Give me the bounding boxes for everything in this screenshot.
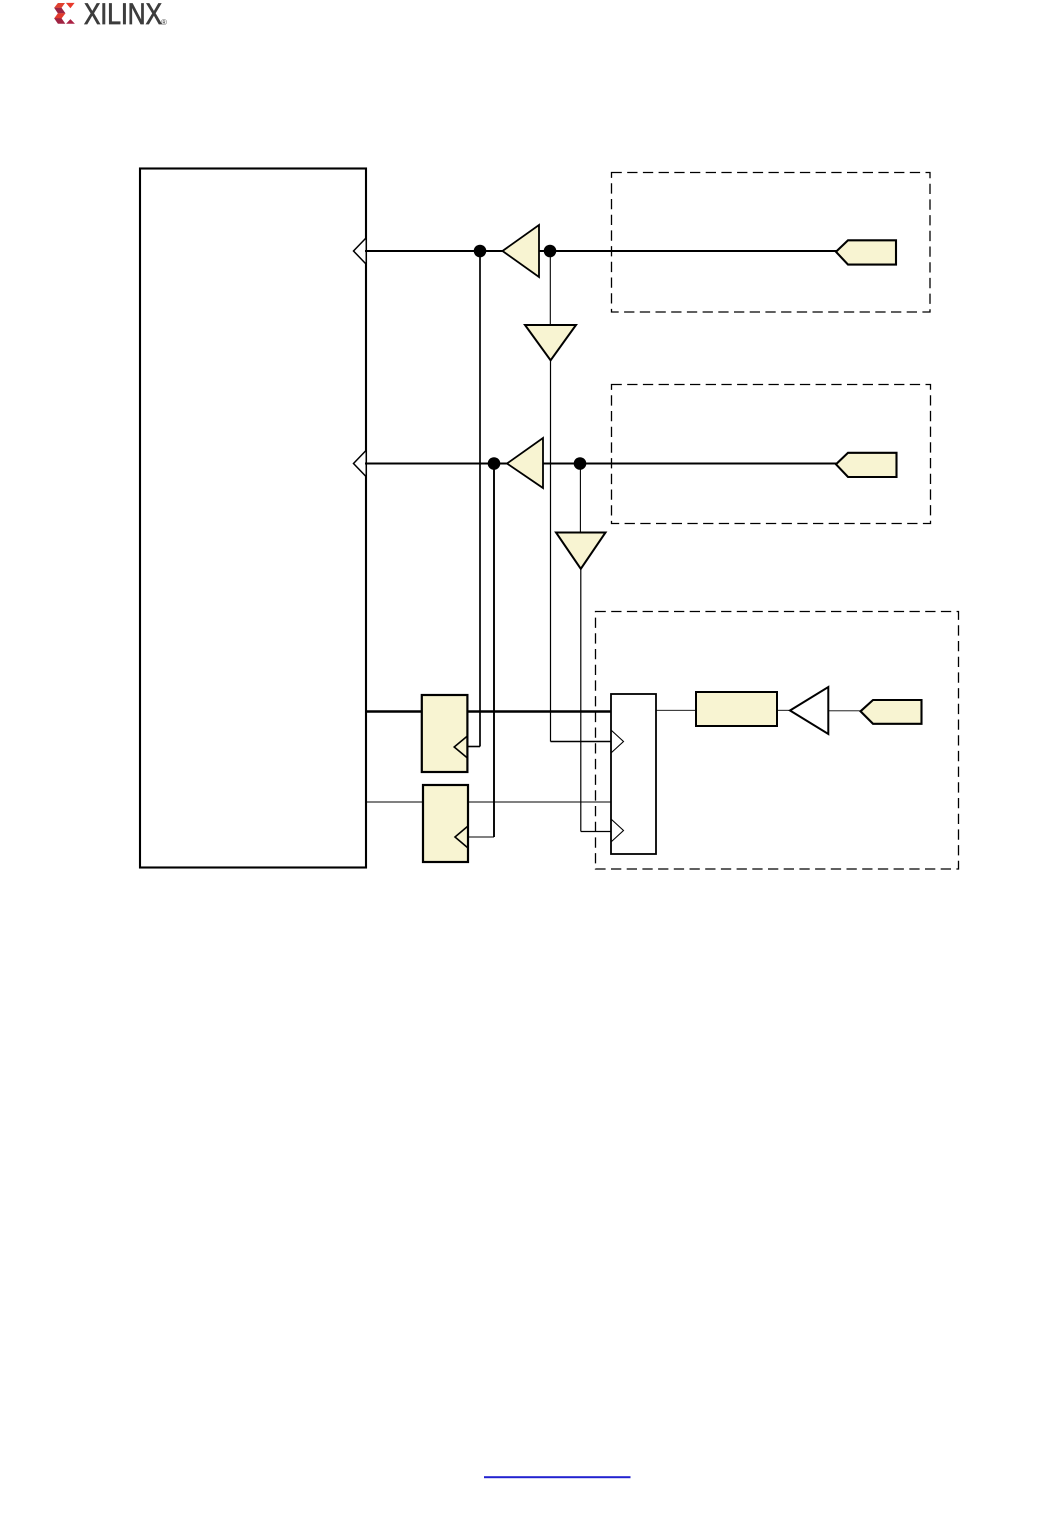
junction dot J4 xyxy=(574,457,587,470)
wire FF2 to DDR D2 xyxy=(468,801,611,803)
wire from BUFG1 down to DDR clock input xyxy=(550,360,552,742)
pad PAD3 xyxy=(861,700,922,724)
dashed IOB box 2 xyxy=(612,385,931,524)
wire net2 right segment xyxy=(543,463,837,465)
input buffer IBUF1 xyxy=(503,225,540,277)
delay element block xyxy=(696,692,777,726)
port arrow P1 on main block edge xyxy=(354,239,366,264)
Xilinx logo emblem xyxy=(54,3,75,24)
svg-text:XILINX: XILINX xyxy=(84,0,162,31)
wire delay to OBUF xyxy=(777,709,791,711)
clock buffer BUFG1 (down triangle) xyxy=(525,325,576,360)
wire from J3 down to FF2 clock xyxy=(493,464,495,838)
wire net2 left segment xyxy=(365,463,507,465)
input buffer IBUF2 xyxy=(507,438,543,488)
port arrow P2 on main block edge xyxy=(354,451,366,476)
wire net1 right segment xyxy=(539,250,837,252)
svg-text:®: ® xyxy=(161,18,167,27)
dashed IOB box 3 xyxy=(596,612,959,870)
wire from J2 down xyxy=(549,251,551,325)
dashed IOB box 1 xyxy=(612,173,931,313)
wire into DDR clock C1 xyxy=(581,831,611,833)
wire net1 left segment xyxy=(365,250,503,252)
main block (FPGA logic block) xyxy=(140,169,366,868)
junction dot J2 xyxy=(544,245,557,258)
wire from J1 down to FF1 clock xyxy=(479,251,481,747)
wire into FF2 clock pin xyxy=(468,836,494,838)
wire DDR Q to delay element xyxy=(656,709,696,711)
wire from BUFG2 down to DDR clock input xyxy=(580,569,582,832)
wire data2 from main block to FF2 xyxy=(366,801,423,803)
pad PAD1 xyxy=(836,240,896,264)
wire OBUF to PAD3 xyxy=(828,710,861,712)
flip-flop FF1 xyxy=(422,695,468,772)
footer hyperlink underline xyxy=(484,1476,631,1478)
junction dot J3 xyxy=(488,457,501,470)
wire into DDR clock C0 xyxy=(551,741,612,743)
wire into FF1 clock pin xyxy=(467,746,480,748)
wire from J4 down xyxy=(579,464,581,533)
clock buffer BUFG2 (down triangle) xyxy=(556,533,606,569)
wire data1 from main block to FF1 xyxy=(366,710,422,712)
wire FF1 to DDR D1 xyxy=(467,710,611,712)
flip-flop FF2 xyxy=(423,785,468,862)
output buffer OBUF (white) xyxy=(790,687,828,734)
pad PAD2 xyxy=(836,453,897,477)
DDR output register block xyxy=(611,694,656,854)
junction dot J1 xyxy=(474,245,487,258)
